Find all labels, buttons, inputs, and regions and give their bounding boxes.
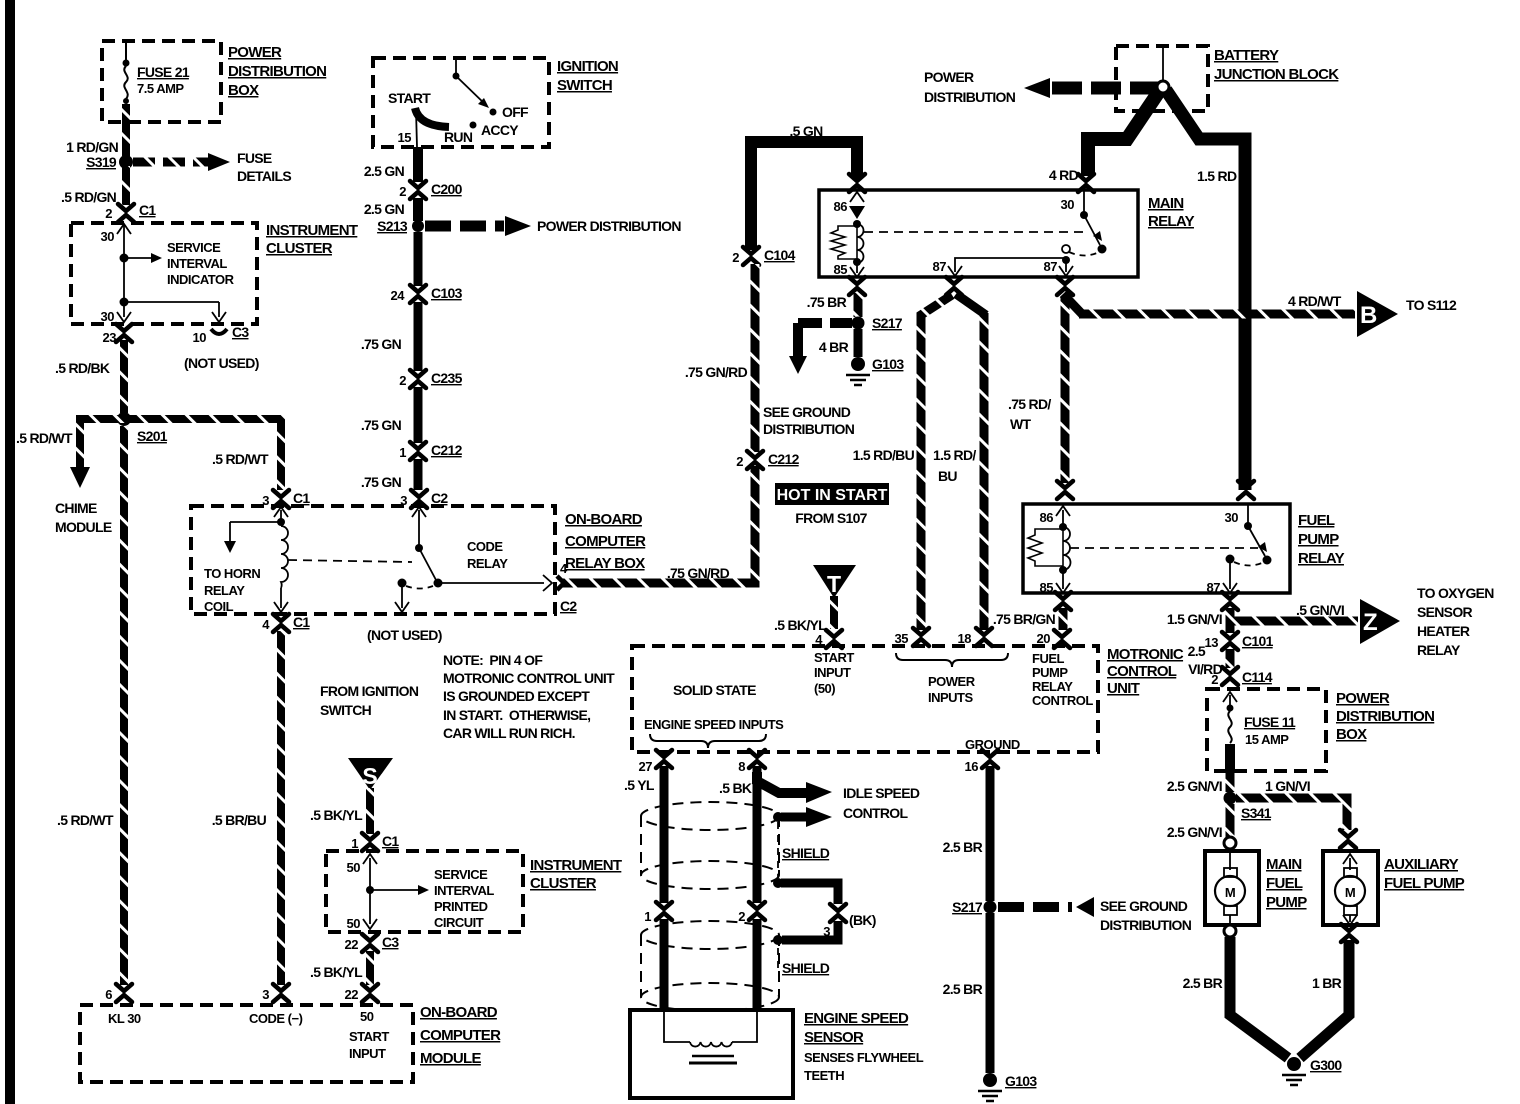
svg-text:1.5 RD: 1.5 RD <box>1197 168 1237 184</box>
motronic control unit box <box>632 646 1098 752</box>
splice S217 lower <box>952 899 996 915</box>
connector C1 pin 4 <box>262 614 310 632</box>
svg-text:2.5 BR: 2.5 BR <box>1183 975 1223 991</box>
hot in start tag <box>775 483 889 526</box>
svg-text:IGNITION: IGNITION <box>557 58 618 75</box>
svg-text:FUEL: FUEL <box>1266 875 1303 892</box>
svg-text:BU: BU <box>938 468 957 484</box>
svg-text:2.5 GN: 2.5 GN <box>364 163 405 179</box>
motronic control unit label <box>1107 646 1184 697</box>
connector pin 3 shield <box>823 904 846 939</box>
on-board computer module label <box>420 1004 501 1067</box>
svg-text:RELAY: RELAY <box>1148 213 1195 230</box>
wire .5 RD/BK <box>55 340 124 413</box>
svg-text:(NOT USED): (NOT USED) <box>367 627 442 643</box>
connector C101 pin 13 <box>1205 632 1274 650</box>
svg-text:FUEL: FUEL <box>1298 512 1335 529</box>
wire 1 RD/GN <box>66 104 126 158</box>
wire idle speed control branch <box>757 772 920 821</box>
svg-text:MOTRONIC CONTROL UNIT: MOTRONIC CONTROL UNIT <box>443 670 615 686</box>
svg-text:INSTRUMENT: INSTRUMENT <box>530 857 622 874</box>
wire .5 BK/YL lower <box>310 951 370 985</box>
svg-text:RELAY BOX: RELAY BOX <box>565 555 645 572</box>
svg-text:INTERVAL: INTERVAL <box>167 256 227 271</box>
svg-text:87: 87 <box>933 259 947 274</box>
wire 1 GN/VI <box>1236 778 1347 830</box>
svg-text:2: 2 <box>399 373 406 388</box>
svg-text:S213: S213 <box>377 218 408 234</box>
battery junction terminal <box>1157 81 1169 93</box>
svg-text:PUMP: PUMP <box>1298 531 1339 548</box>
svg-text:Z: Z <box>1363 609 1378 636</box>
connector main relay pin 86 <box>849 174 865 192</box>
svg-text:18: 18 <box>958 631 972 646</box>
instrument cluster box 2 <box>326 851 523 932</box>
svg-text:C235: C235 <box>431 370 463 386</box>
pin 3 entry arrow <box>274 507 288 526</box>
wire S201 horizontal <box>80 415 281 423</box>
svg-text:CODE (−): CODE (−) <box>249 1011 303 1026</box>
svg-text:KL 30: KL 30 <box>108 1011 141 1026</box>
splice S201 <box>117 412 168 444</box>
svg-text:13: 13 <box>1205 635 1219 650</box>
auxiliary fuel pump box <box>1323 851 1378 925</box>
main pump terminal top <box>1224 837 1236 849</box>
main relay switch <box>864 190 1107 276</box>
to horn relay coil arrow <box>204 522 281 614</box>
svg-text:TEETH: TEETH <box>804 1068 844 1083</box>
svg-text:C3: C3 <box>382 934 399 950</box>
svg-text:1 GN/VI: 1 GN/VI <box>1265 778 1310 794</box>
svg-text:S341: S341 <box>1241 805 1272 821</box>
svg-text:.75 GN: .75 GN <box>361 474 402 490</box>
wire .5 BR/BU <box>212 631 281 985</box>
from ignition switch note <box>320 683 419 718</box>
engine speed sensor label <box>804 1010 924 1083</box>
svg-text:SHIELD: SHIELD <box>782 960 830 976</box>
svg-text:.75 GN: .75 GN <box>361 417 402 433</box>
connector C104 pin 2 <box>732 247 795 265</box>
svg-text:30: 30 <box>101 309 115 324</box>
svg-text:C2: C2 <box>431 490 448 506</box>
svg-text:2: 2 <box>732 250 739 265</box>
auxiliary fuel pump motor <box>1335 854 1365 925</box>
svg-text:RELAY: RELAY <box>1298 550 1345 567</box>
svg-text:C1: C1 <box>293 614 310 630</box>
svg-text:MAIN: MAIN <box>1266 856 1302 873</box>
connector C3 pin 10 <box>184 324 259 371</box>
wire 2.5 VI/RD <box>1188 643 1230 677</box>
svg-text:1: 1 <box>399 445 406 460</box>
svg-text:C101: C101 <box>1242 633 1274 649</box>
svg-text:AUXILIARY: AUXILIARY <box>1384 856 1459 873</box>
wire to fuse details <box>133 150 291 184</box>
connector C114 pin 2 <box>1211 667 1273 687</box>
wire 1.5 RD/BU split <box>853 294 986 630</box>
svg-text:MODULE: MODULE <box>55 519 112 535</box>
svg-text:RELAY: RELAY <box>204 583 245 598</box>
svg-text:(NOT USED): (NOT USED) <box>184 355 259 371</box>
svg-text:.75 BR: .75 BR <box>807 294 847 310</box>
svg-text:INDICATOR: INDICATOR <box>167 272 235 287</box>
svg-text:CODE: CODE <box>467 539 503 554</box>
svg-text:RELAY: RELAY <box>467 556 508 571</box>
svg-text:50: 50 <box>347 860 361 875</box>
svg-text:FUSE: FUSE <box>237 150 272 166</box>
main fuel pump box <box>1205 851 1259 925</box>
svg-text:C1: C1 <box>293 490 310 506</box>
svg-text:85: 85 <box>1040 580 1054 595</box>
connector C1 pin 1 <box>351 833 399 851</box>
node junction lower <box>120 258 220 307</box>
svg-text:IN START. OTHERWISE,: IN START. OTHERWISE, <box>443 707 590 723</box>
svg-text:.5 RD/BK: .5 RD/BK <box>55 360 110 376</box>
service interval printed circuit <box>347 854 495 931</box>
svg-text:.5 RD/WT: .5 RD/WT <box>16 430 73 446</box>
svg-text:DISTRIBUTION: DISTRIBUTION <box>228 63 326 80</box>
wire fuse 11 out <box>1225 744 1235 771</box>
svg-text:ON-BOARD: ON-BOARD <box>420 1004 498 1021</box>
svg-text:.75 RD/: .75 RD/ <box>1008 396 1051 412</box>
engine speed inputs label <box>644 717 784 748</box>
wire chime module <box>16 415 112 535</box>
svg-text:2.5: 2.5 <box>1188 643 1206 659</box>
wire 2.5 BR pump <box>1183 937 1288 1058</box>
svg-text:3: 3 <box>262 987 269 1002</box>
connector C103 pin 24 <box>391 285 463 303</box>
wire .5 GN top <box>751 123 857 250</box>
svg-text:START: START <box>388 90 431 106</box>
svg-text:HOT IN START: HOT IN START <box>777 487 888 504</box>
svg-text:RELAY: RELAY <box>1417 642 1461 658</box>
fuel pump relay control label <box>1032 651 1093 708</box>
svg-text:C212: C212 <box>768 451 800 467</box>
wire 2.5 GN lower <box>364 198 418 221</box>
svg-text:.5 GN/VI: .5 GN/VI <box>1296 602 1344 618</box>
wire .75 GN c <box>361 387 418 490</box>
wire .75 BR main relay 85 <box>807 293 858 317</box>
wire fuse feed <box>123 41 130 67</box>
fuel relay coil <box>1028 506 1071 595</box>
svg-text:FROM IGNITION: FROM IGNITION <box>320 683 419 699</box>
connector motronic pin 27 <box>639 750 672 774</box>
solid state label <box>673 682 756 698</box>
svg-text:SENSOR: SENSOR <box>804 1029 864 1046</box>
battery junction block box <box>1116 46 1208 111</box>
wire .5 YL <box>624 766 664 903</box>
svg-text:2: 2 <box>105 206 112 221</box>
svg-text:.5 RD/GN: .5 RD/GN <box>61 189 117 205</box>
connector C3 pin 22 <box>345 934 400 952</box>
fuel relay switch <box>1070 504 1272 595</box>
wire 1.5 RD <box>1166 90 1245 490</box>
svg-text:T: T <box>827 571 841 597</box>
shield lower cylinder <box>641 921 779 1011</box>
svg-text:(BK): (BK) <box>849 912 876 928</box>
svg-text:INTERVAL: INTERVAL <box>434 883 494 898</box>
shield tap lower <box>773 878 876 928</box>
svg-text:FUEL PUMP: FUEL PUMP <box>1384 875 1465 892</box>
svg-text:15 AMP: 15 AMP <box>1245 732 1289 747</box>
svg-text:CONTROL: CONTROL <box>1107 663 1177 680</box>
power distribution box label <box>228 44 326 99</box>
connector main relay pin 85 <box>849 277 865 295</box>
svg-text:.5 BK/YL: .5 BK/YL <box>310 964 363 980</box>
instrument cluster 2 label <box>530 857 622 892</box>
wire 4 RD/WT to B <box>1063 293 1355 315</box>
connector main relay pin 87 mid <box>946 277 962 295</box>
svg-text:2: 2 <box>1211 672 1218 687</box>
svg-text:.75 GN/RD: .75 GN/RD <box>685 364 748 380</box>
svg-text:16: 16 <box>965 759 979 774</box>
note text <box>443 652 615 741</box>
svg-text:.75 GN: .75 GN <box>361 336 402 352</box>
svg-text:SERVICE: SERVICE <box>167 240 221 255</box>
on-board computer relay box <box>191 506 555 614</box>
svg-text:IDLE SPEED: IDLE SPEED <box>843 785 920 801</box>
connector fuel relay pin 85 <box>1055 592 1071 610</box>
wire to power distribution <box>425 216 681 236</box>
svg-text:G103: G103 <box>1005 1073 1037 1089</box>
svg-text:ENGINE SPEED INPUTS: ENGINE SPEED INPUTS <box>644 717 784 732</box>
svg-text:SEE GROUND: SEE GROUND <box>1100 898 1188 914</box>
svg-text:START: START <box>349 1029 389 1044</box>
code relay switch <box>288 507 552 643</box>
main relay label <box>1148 195 1195 230</box>
svg-text:INPUT: INPUT <box>349 1046 386 1061</box>
svg-text:87: 87 <box>1207 580 1221 595</box>
svg-text:SWITCH: SWITCH <box>320 702 372 718</box>
svg-text:RELAY: RELAY <box>1032 679 1073 694</box>
svg-text:DISTRIBUTION: DISTRIBUTION <box>924 89 1016 105</box>
start input label <box>814 650 854 696</box>
svg-text:30: 30 <box>1225 510 1239 525</box>
svg-text:CONTROL: CONTROL <box>1032 693 1093 708</box>
svg-text:GROUND: GROUND <box>965 737 1020 752</box>
svg-text:ACCY: ACCY <box>481 122 519 138</box>
ground G103 lower <box>978 1073 1037 1101</box>
svg-text:.5 BK/YL: .5 BK/YL <box>310 807 363 823</box>
svg-text:INPUT: INPUT <box>814 665 851 680</box>
off-page arrow B to S112 <box>1357 291 1457 337</box>
auxiliary fuel pump label <box>1384 856 1465 892</box>
wire .5 RD/WT down to module <box>57 426 124 985</box>
wire 2.5 GN/VI lower <box>1167 804 1230 840</box>
wire 4 RD <box>1049 90 1160 183</box>
connector main relay pin 87 right <box>1057 277 1073 295</box>
svg-text:2.5 GN/VI: 2.5 GN/VI <box>1167 778 1222 794</box>
wire 1.5 GN/VI <box>1167 608 1230 633</box>
relay coil <box>274 526 288 612</box>
connector main relay pin 30 <box>1078 174 1094 192</box>
svg-text:.5 RD/WT: .5 RD/WT <box>212 451 269 467</box>
wire 2.5 GN/VI upper <box>1167 771 1230 794</box>
svg-text:4 RD: 4 RD <box>1049 167 1079 183</box>
svg-text:DETAILS: DETAILS <box>237 168 291 184</box>
svg-text:SWITCH: SWITCH <box>557 77 612 94</box>
connector C2 pin 4 <box>557 561 577 614</box>
instrument cluster label <box>266 222 358 257</box>
svg-text:BATTERY: BATTERY <box>1214 47 1279 64</box>
ground G300 <box>1282 1057 1342 1085</box>
main fuel pump label <box>1266 856 1307 911</box>
svg-text:10: 10 <box>193 330 207 345</box>
power distribution box 2 <box>1207 689 1326 771</box>
svg-text:COMPUTER: COMPUTER <box>420 1027 501 1044</box>
svg-text:G300: G300 <box>1310 1057 1342 1073</box>
wire .75 GN d <box>414 459 423 490</box>
svg-text:1 BR: 1 BR <box>1312 975 1342 991</box>
svg-text:WT: WT <box>1010 416 1032 432</box>
svg-text:TO OXYGEN: TO OXYGEN <box>1417 585 1494 601</box>
power inputs brace <box>896 653 1008 705</box>
splice S319 <box>86 154 133 170</box>
fuse 11 15 AMP <box>1223 692 1296 747</box>
svg-text:C104: C104 <box>764 247 796 263</box>
svg-text:C114: C114 <box>1242 669 1273 685</box>
wire 2.5 BR ground lower <box>943 913 990 1073</box>
svg-text:30: 30 <box>101 229 115 244</box>
svg-text:4 BR: 4 BR <box>819 339 849 355</box>
connector pin 4 motronic <box>815 630 842 648</box>
engine speed sensor coil <box>664 1010 757 1063</box>
wire sensor right <box>753 919 762 1010</box>
wire 2.5 GN <box>364 147 418 182</box>
pin 30 top <box>101 224 131 256</box>
main fuel pump motor <box>1215 851 1245 925</box>
svg-text:FUSE 21: FUSE 21 <box>137 64 190 80</box>
svg-text:.75 BR/GN: .75 BR/GN <box>993 611 1056 627</box>
svg-text:(50): (50) <box>814 681 835 696</box>
wire .5 BK <box>719 766 757 903</box>
svg-text:C2: C2 <box>560 598 577 614</box>
connector motronic pin 35 <box>895 628 929 646</box>
svg-text:20: 20 <box>1037 631 1051 646</box>
wire .75 GN/RD vertical <box>685 264 755 452</box>
svg-text:22: 22 <box>345 987 359 1002</box>
svg-text:FUEL: FUEL <box>1032 651 1065 666</box>
main relay coil pin 86 <box>831 192 865 277</box>
svg-text:SOLID STATE: SOLID STATE <box>673 682 756 698</box>
svg-text:1: 1 <box>644 909 651 924</box>
connector C212 pin 2 <box>736 451 799 469</box>
svg-text:UNIT: UNIT <box>1107 680 1140 697</box>
on-board computer relay box label <box>565 511 646 572</box>
connector aux pump out <box>1341 924 1357 942</box>
svg-text:B: B <box>1360 302 1377 329</box>
svg-text:35: 35 <box>895 631 909 646</box>
svg-text:OFF: OFF <box>502 104 529 120</box>
wire power distribution left <box>924 69 1158 105</box>
connector motronic pin 16 <box>965 750 998 774</box>
svg-text:SEE GROUND: SEE GROUND <box>763 404 851 420</box>
svg-text:PUMP: PUMP <box>1266 894 1307 911</box>
off-page arrow Z oxygen sensor <box>1360 585 1494 658</box>
svg-text:2.5 GN: 2.5 GN <box>364 201 405 217</box>
svg-text:87: 87 <box>1044 259 1058 274</box>
connector C1 pin 3 <box>262 490 310 508</box>
connector C1 pin 2 <box>105 202 156 222</box>
svg-text:23: 23 <box>103 330 117 345</box>
svg-text:S: S <box>362 763 377 789</box>
svg-text:86: 86 <box>834 199 848 214</box>
svg-text:CIRCUIT: CIRCUIT <box>434 915 484 930</box>
svg-text:22: 22 <box>345 937 359 952</box>
svg-text:2: 2 <box>399 184 406 199</box>
svg-text:CAR WILL RUN RICH.: CAR WILL RUN RICH. <box>443 725 575 741</box>
svg-text:SHIELD: SHIELD <box>782 845 830 861</box>
svg-text:JUNCTION BLOCK: JUNCTION BLOCK <box>1214 66 1339 83</box>
svg-text:SENSOR: SENSOR <box>1417 604 1473 620</box>
svg-text:S319: S319 <box>86 154 117 170</box>
svg-text:TO S112: TO S112 <box>1406 297 1457 313</box>
wire .75 GN/RD horizontal <box>562 466 755 583</box>
svg-text:FUSE 11: FUSE 11 <box>1244 714 1296 730</box>
fuel pump relay label <box>1298 512 1345 567</box>
svg-text:BOX: BOX <box>1336 726 1367 743</box>
svg-text:.75 GN/RD: .75 GN/RD <box>667 565 730 581</box>
svg-text:POWER: POWER <box>928 674 976 689</box>
wire .5 GN/VI to Z <box>1234 602 1358 621</box>
connector pin 2 sensor <box>738 902 765 924</box>
svg-text:ENGINE SPEED: ENGINE SPEED <box>804 1010 909 1027</box>
svg-text:4 RD/WT: 4 RD/WT <box>1288 293 1342 309</box>
main pump terminal bottom <box>1224 925 1236 937</box>
svg-text:PRINTED: PRINTED <box>434 899 488 914</box>
svg-text:COMPUTER: COMPUTER <box>565 533 646 550</box>
battery junction block label <box>1214 47 1339 83</box>
svg-text:CHIME: CHIME <box>55 500 97 516</box>
splice S217 <box>852 315 903 331</box>
svg-text:85: 85 <box>834 262 848 277</box>
ignition switch contacts <box>388 58 529 147</box>
svg-text:27: 27 <box>639 759 653 774</box>
svg-text:C1: C1 <box>382 833 399 849</box>
wire see ground distribution elbow <box>763 323 855 437</box>
svg-text:CLUSTER: CLUSTER <box>530 875 597 892</box>
svg-text:.5 BR/BU: .5 BR/BU <box>212 812 267 828</box>
svg-text:S217: S217 <box>952 899 983 915</box>
power distribution box (fuse 21) <box>102 41 221 122</box>
svg-text:24: 24 <box>391 288 406 303</box>
wire .75 GN a <box>361 232 418 352</box>
svg-text:15: 15 <box>398 130 412 145</box>
wire .75 RD/WT <box>1008 298 1065 483</box>
svg-text:1.5 RD/BU: 1.5 RD/BU <box>853 447 915 463</box>
svg-text:6: 6 <box>105 987 112 1002</box>
svg-text:1.5 RD/: 1.5 RD/ <box>933 447 976 463</box>
ignition switch box <box>373 58 549 147</box>
svg-text:2.5 BR: 2.5 BR <box>943 839 983 855</box>
wire sensor left <box>660 919 669 1010</box>
svg-text:50: 50 <box>347 916 361 931</box>
wire 4 BR <box>819 329 858 357</box>
svg-text:CLUSTER: CLUSTER <box>266 240 333 257</box>
svg-text:C103: C103 <box>431 285 463 301</box>
svg-text:SENSES FLYWHEEL: SENSES FLYWHEEL <box>804 1050 924 1065</box>
connector pin 6 module <box>105 984 132 1002</box>
svg-text:86: 86 <box>1040 510 1054 525</box>
connector C235 pin 2 <box>399 370 462 388</box>
svg-text:PUMP: PUMP <box>1032 665 1068 680</box>
svg-text:1.5 GN/VI: 1.5 GN/VI <box>1167 611 1222 627</box>
svg-text:.5 BK: .5 BK <box>719 780 752 796</box>
svg-text:CONTROL: CONTROL <box>843 805 908 821</box>
engine speed sensor box <box>630 1010 793 1098</box>
svg-text:C1: C1 <box>139 202 156 218</box>
svg-text:30: 30 <box>1061 197 1075 212</box>
connector motronic pin 8 <box>738 750 765 774</box>
